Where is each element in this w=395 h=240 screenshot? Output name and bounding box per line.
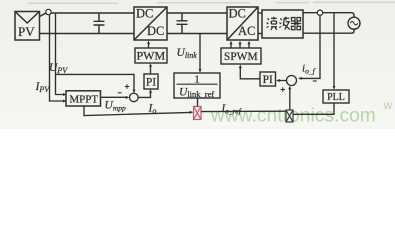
svg-text:PV: PV [18, 24, 35, 39]
svg-text:Ulink_ref: Ulink_ref [179, 86, 214, 99]
svg-text:MPPT: MPPT [69, 94, 98, 106]
svg-text:PLL: PLL [327, 92, 345, 103]
svg-text:PI: PI [263, 74, 273, 86]
svg-text:DC: DC [229, 7, 246, 21]
svg-text:DC: DC [147, 24, 164, 38]
svg-text:SPWM: SPWM [224, 51, 258, 63]
svg-text:DC: DC [136, 7, 153, 21]
svg-text:PI: PI [146, 76, 156, 88]
svg-text:w: w [383, 98, 393, 112]
svg-text:PWM: PWM [136, 48, 165, 62]
svg-text:AC: AC [238, 24, 255, 38]
